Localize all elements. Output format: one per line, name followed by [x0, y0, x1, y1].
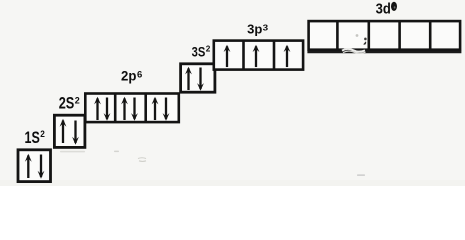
- 2s orbital box: [54, 115, 85, 147]
- 3s down electron arrow: [197, 68, 204, 91]
- 2p box separator 1: [114, 94, 117, 123]
- 2p box separator 2: [144, 94, 147, 123]
- svg-text:2: 2: [206, 43, 211, 53]
- 3d orbital row (5 empty boxes): [309, 21, 461, 50]
- 1s up electron arrow: [25, 154, 32, 178]
- scan artifact: small dark mark left of 3d separator2: [364, 38, 366, 41]
- svg-text:6: 6: [137, 69, 142, 79]
- 3p box1 up arrow: [224, 45, 231, 67]
- svg-text:2p: 2p: [121, 69, 136, 84]
- 2p box1 down arrow: [104, 98, 111, 121]
- 3d row thickened bottom edge (scan): [307, 51, 461, 54]
- 3d box separator 2: [367, 21, 370, 50]
- 2s down electron arrow: [72, 121, 79, 145]
- 2p box1 up arrow: [94, 97, 101, 120]
- svg-text:3: 3: [263, 22, 269, 32]
- 3s orbital box: [181, 64, 215, 92]
- 2s up electron arrow: [60, 119, 67, 143]
- 1s down electron arrow: [38, 155, 45, 179]
- 3d box separator 4: [429, 21, 432, 50]
- paper background: [0, 0, 465, 186]
- svg-text:2: 2: [75, 95, 80, 105]
- svg-text:3S: 3S: [192, 45, 206, 60]
- 1s orbital box: [18, 150, 51, 182]
- faint dash bottom right: [357, 174, 365, 176]
- scan artifact: faint dot inside 3d box2: [356, 34, 359, 37]
- faint scan streak bottom: [0, 180, 465, 186]
- svg-text:3p: 3p: [247, 23, 263, 37]
- faint scan dash under 2s box: [60, 151, 85, 153]
- 2p box2 up arrow: [121, 97, 128, 120]
- 3p box2 up arrow: [253, 45, 260, 67]
- 2p orbital row (3 boxes): [85, 94, 179, 123]
- 3s up electron arrow: [185, 67, 192, 90]
- label 3d superscript blob: [391, 2, 397, 11]
- 3d box separator 1: [336, 21, 339, 50]
- 2p box3 up arrow: [152, 97, 159, 120]
- 3p box separator 1: [242, 41, 245, 70]
- svg-text:2S: 2S: [59, 95, 75, 113]
- 2p box3 down arrow: [163, 98, 170, 121]
- svg-text:3d: 3d: [376, 1, 391, 17]
- 3p box3 up arrow: [284, 45, 291, 67]
- scan artifact: pale wave over 3d bottom edge: [342, 49, 365, 52]
- 3d box separator 3: [398, 21, 401, 50]
- 2p box2 down arrow: [131, 98, 138, 121]
- svg-text:2: 2: [40, 129, 45, 139]
- 3p box separator 2: [273, 41, 276, 70]
- svg-text:1S: 1S: [25, 129, 40, 147]
- 3p orbital row (3 boxes): [214, 41, 303, 70]
- faint smudge below 2p row: [138, 158, 146, 162]
